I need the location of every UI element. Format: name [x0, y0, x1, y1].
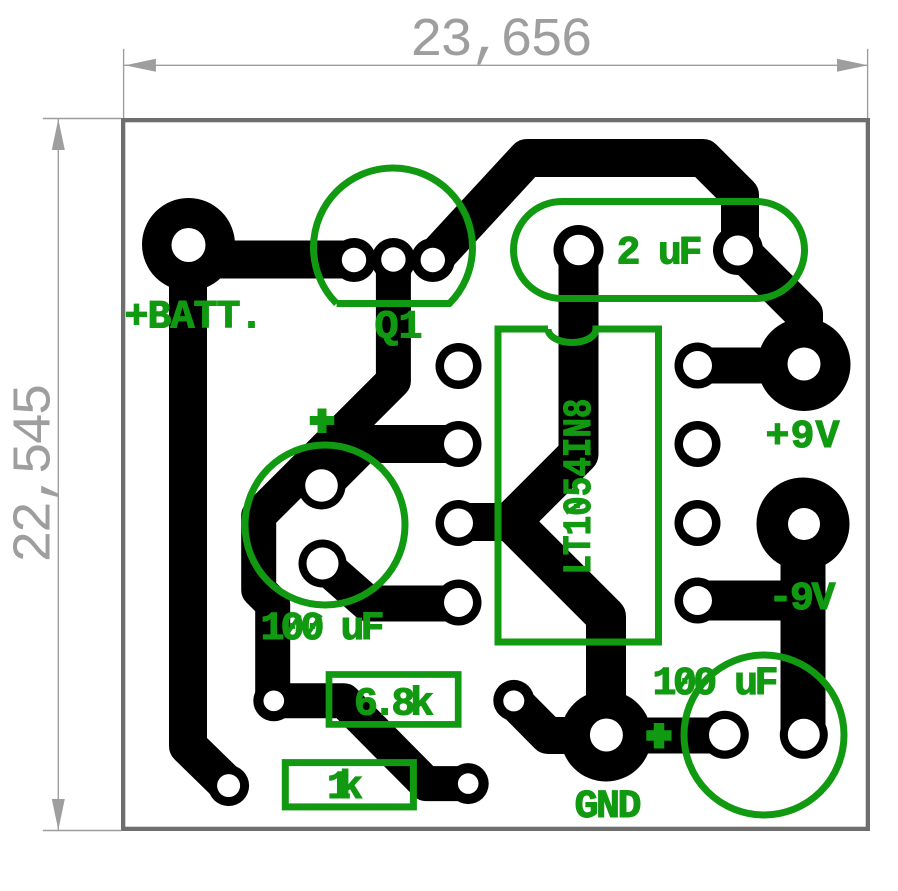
pad U1 pin6	[675, 500, 721, 546]
svg-text:1k: 1k	[327, 766, 363, 811]
wire C1 right pad to +9V pad	[740, 250, 804, 365]
pad U1 pin2	[436, 421, 482, 467]
arrow top right	[837, 59, 868, 72]
pad U1 pin4	[436, 580, 482, 626]
wire C1 left pad down to node Y junction	[511, 250, 579, 522]
pad R1 right	[493, 680, 534, 721]
wire U1 pin8 to +9V pad	[698, 348, 805, 384]
hole Q1 pin2	[381, 247, 405, 271]
pad R1 left	[253, 680, 294, 721]
wire Q1 pin3 up over top to C1 right pad	[433, 158, 740, 260]
svg-text:2 uF: 2 uF	[617, 232, 703, 277]
svg-text:Q1: Q1	[375, 306, 423, 351]
hole U1 pin5	[683, 586, 712, 615]
pad C2 minus	[299, 540, 347, 588]
hole C2 plus	[305, 469, 338, 502]
pad U1 pin8	[675, 343, 721, 389]
zero slash LT1054IN8	[566, 500, 585, 513]
capacitor C2 outline (100 uF)	[245, 445, 405, 605]
wire R1 6.8k left pad to R2 1k right pad	[274, 701, 468, 784]
dimension line left	[57, 119, 59, 831]
extension line top right	[867, 49, 869, 118]
svg-text:100 uF: 100 uF	[261, 607, 385, 652]
arrow top left	[125, 59, 156, 72]
hole +BATT	[172, 228, 206, 262]
svg-text:23,656: 23,656	[410, 11, 593, 72]
hole C1 left	[564, 235, 595, 266]
svg-text:-9V: -9V	[769, 577, 836, 622]
pad Q1 pin3	[411, 238, 455, 282]
hole C1 right	[723, 236, 753, 266]
wire U1 pin2 stub to C2 plus pad	[322, 444, 459, 486]
hole U1 pin7	[683, 430, 712, 459]
wire Q1 pin2 down to R1 6.8k left pad	[259, 260, 394, 701]
capacitor C3 outline (100 uF)	[684, 655, 844, 815]
svg-text:LT1054IN8: LT1054IN8	[557, 399, 602, 575]
pad C1 right	[713, 225, 763, 275]
hole R1 left	[264, 691, 285, 712]
hole R2 right	[458, 773, 479, 794]
pad C3 minus	[780, 711, 828, 759]
hole R2 left	[217, 774, 240, 797]
pad C1 left	[554, 225, 604, 275]
copper layer (black)	[188, 158, 804, 786]
arrow left lower	[52, 799, 65, 830]
hole C3 minus	[788, 719, 820, 751]
resistor R2 outline (1k)	[285, 763, 413, 807]
hole U1 pin2	[444, 430, 473, 459]
extension line left lower	[43, 830, 122, 832]
hole U1 pin3	[444, 509, 473, 538]
capacitor C1 outline (2 uF)	[514, 202, 805, 299]
hole U1 pin6	[683, 509, 712, 538]
polarity plus C3	[646, 723, 671, 749]
pad +BATT	[142, 198, 235, 291]
svg-text:100 uF: 100 uF	[653, 662, 779, 707]
wire U1 pin3 stub to node Y junction	[459, 503, 515, 541]
hole +9V	[788, 348, 821, 381]
pad C2 plus	[298, 462, 346, 510]
wire node Y junction down to GND pad	[511, 522, 606, 737]
op-amp U1 outline (LT1054IN8 DIP-8)	[498, 329, 659, 642]
pad U1 pin7	[675, 421, 721, 467]
pad C3 plus	[701, 711, 749, 759]
wire U1 pin5 to -9V trunk	[698, 581, 804, 621]
svg-text:GND: GND	[575, 785, 642, 830]
pad GND	[561, 691, 652, 782]
wire U1 pin4 stub to C2 minus pad	[323, 564, 459, 604]
slashed zeros overlay	[287, 500, 713, 689]
wire +BATT pad down to R2 1k left pad	[188, 250, 229, 786]
hole Q1 pin1	[342, 248, 366, 272]
hole GND	[590, 719, 623, 752]
wire +BATT pad to Q1 pin1	[195, 241, 354, 279]
wire R1 6.8k right pad to GND pad	[514, 701, 606, 736]
svg-text:+BATT.: +BATT.	[125, 296, 263, 341]
hole R1 right	[503, 690, 524, 711]
silkscreen layer (green)	[245, 168, 844, 815]
pad U1 pin3	[436, 500, 482, 546]
hole C2 minus	[307, 548, 339, 580]
hole U1 pin1	[444, 352, 473, 381]
hole Q1 pin3	[421, 248, 445, 272]
dimension line top	[124, 64, 868, 66]
board outline	[123, 120, 868, 829]
svg-text:+9V: +9V	[766, 415, 840, 460]
wire GND pad to C3 plus pad	[606, 718, 725, 754]
pad U1 pin1	[436, 343, 482, 389]
pad U1 pin5	[675, 578, 721, 624]
hole U1 pin8	[683, 351, 712, 380]
hole -9V	[788, 508, 820, 540]
pad R2 left	[208, 765, 249, 806]
pad Q1 pin1	[332, 238, 376, 282]
zero slashes 100 uF C2	[287, 615, 321, 634]
arrow left upper	[52, 119, 65, 150]
wire -9V pad down to C3 minus pad	[781, 524, 826, 735]
pad +9V	[758, 318, 851, 411]
polarity plus C2	[310, 409, 335, 434]
svg-text:22,545: 22,545	[6, 383, 67, 563]
pad -9V	[757, 478, 850, 571]
drill holes (white)	[172, 228, 821, 797]
pad R2 right	[448, 763, 489, 804]
hole C3 plus	[709, 719, 741, 751]
extension line top left	[123, 49, 125, 118]
pad Q1 pin2	[371, 238, 415, 282]
transistor Q1 outline	[314, 168, 473, 304]
resistor R1 outline (6.8k)	[329, 675, 458, 725]
zero slashes 100 uF C3	[679, 670, 713, 689]
hole U1 pin4	[444, 588, 473, 617]
svg-text:6.8k: 6.8k	[354, 683, 434, 728]
extension line left upper	[43, 118, 121, 120]
